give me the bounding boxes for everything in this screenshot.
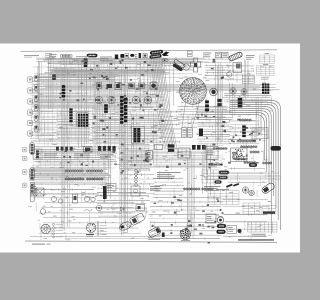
legend text cluster top left	[45, 53, 89, 65]
dark block right of detail boxes	[199, 129, 203, 137]
wire bus J (lower left)	[30, 146, 117, 170]
wire bus X	[118, 174, 154, 195]
bulb ladder right of speedometer	[97, 222, 107, 236]
background harness runs (upper mass)	[30, 61, 223, 167]
vertical riser group j	[141, 61, 151, 109]
resistor bar (dark vertical)	[103, 186, 107, 199]
vertical riser group g	[215, 63, 222, 146]
left connector pill P1	[30, 143, 35, 155]
harness sweep curves (top right corner)	[230, 101, 281, 235]
fine harness weave (mid band block)	[32, 147, 118, 169]
socket chain row SC1b (dark)	[65, 178, 84, 180]
wire bus Z (right mid)	[223, 92, 272, 103]
left margin callout boxes (page references)	[28, 77, 33, 136]
terminal column TC7	[242, 126, 245, 138]
legend table C with dark row	[262, 206, 276, 215]
vertical riser group r	[230, 83, 235, 118]
wire bus C	[33, 74, 121, 83]
annotation: instrument note	[204, 186, 220, 191]
grommet pill (dark)	[249, 163, 257, 166]
short wire drops scattered in field	[34, 57, 271, 240]
vertical riser group n	[48, 58, 53, 109]
connector chain row y164 c	[262, 162, 271, 164]
component row LR3 (dark cluster)	[98, 146, 116, 151]
socket chain row SC1 (light)	[65, 170, 83, 172]
terminal strip under C1	[61, 59, 75, 65]
wire bundle under circle	[176, 105, 229, 124]
connector C5 (angled black oval pair)	[149, 50, 163, 59]
callout box 2	[222, 52, 228, 58]
connector stack right of circle	[218, 99, 222, 106]
knob circle	[217, 217, 223, 223]
small inline connectors / splice ticks	[59, 59, 261, 244]
headlamp connector pair (spoked)	[230, 88, 247, 95]
dark stack below pin grid	[238, 98, 242, 107]
component row LR5	[192, 145, 206, 150]
buzzer B1 (circle)	[183, 64, 189, 70]
terminal chain TC5	[62, 86, 65, 98]
rear lamp pill L2	[217, 230, 226, 234]
connector C2 (black oval)	[87, 54, 98, 57]
bottom right grid table	[248, 222, 278, 232]
wire bus A (top run)	[36, 57, 208, 65]
vertical riser group m	[202, 153, 210, 196]
wire ladder H (right of circle)	[196, 106, 233, 145]
comp cluster right of pill P1	[33, 149, 42, 159]
wire bus L	[150, 152, 219, 168]
wire bus V (left sparse)	[30, 110, 56, 142]
lower margin ref boxes	[22, 148, 27, 188]
module M2	[139, 83, 145, 89]
headlamp circles pair	[242, 187, 254, 196]
fusible link bar	[139, 53, 142, 58]
wire bus P	[222, 199, 269, 238]
wire bus E	[31, 93, 163, 109]
connector C4 marks	[135, 54, 137, 59]
legend table 1	[260, 53, 275, 63]
wire bus B (main harness run)	[45, 67, 170, 77]
harness arrow symbol	[162, 52, 169, 57]
socket chain row SC2b (dark)	[86, 178, 103, 180]
dash panel nested frame lines	[204, 144, 281, 179]
wire bus N	[30, 170, 111, 186]
terminal blocks above flasher	[188, 51, 193, 57]
callout box 1	[216, 52, 222, 58]
terminal chain column TC2c	[70, 109, 73, 123]
dark blob row mid	[104, 105, 107, 113]
wire bus Q	[153, 178, 184, 196]
sender unit circles	[40, 196, 63, 214]
annotation: right signal harness note	[150, 186, 162, 191]
fuse block F1	[115, 55, 118, 60]
horn H1	[150, 83, 157, 90]
fine harness weave (upper center block)	[89, 59, 166, 104]
relay K3 (rotated pill pair)	[171, 59, 185, 72]
grommet pills column	[215, 171, 230, 184]
fuse panel pin grid (black)	[262, 84, 269, 94]
note text column	[203, 53, 211, 58]
trailer connector (round, many pins)	[180, 229, 190, 241]
wire bundle I	[158, 111, 181, 143]
connector C3 (small black oval)	[130, 54, 134, 57]
vertical riser group l	[105, 112, 111, 199]
trailer junction box	[227, 226, 236, 234]
dark blob row LR6	[271, 146, 282, 151]
fine harness weave (mid lower block)	[119, 146, 152, 169]
scan page (white field)	[0, 44, 300, 253]
left fuse strip	[34, 75, 38, 132]
wire bus N2	[29, 168, 109, 178]
bulb legend ladder (right of ammeter)	[53, 224, 64, 238]
bulb chart table B	[243, 203, 260, 214]
vertical riser group p	[132, 112, 137, 165]
fine harness weave (lower band block)	[32, 170, 112, 184]
connector chain row CH4	[235, 158, 247, 160]
terminal chain TC6	[205, 101, 209, 112]
heater switch cluster with stipple	[231, 148, 248, 162]
relay mini box row	[136, 205, 145, 211]
terminal chain column TC2	[124, 98, 127, 122]
socket chain row SC3	[183, 188, 200, 190]
rear lamp pill L1	[217, 224, 226, 228]
wire bus O (sparse)	[38, 202, 141, 235]
vertical riser group d	[120, 64, 127, 236]
relay K4	[115, 83, 121, 90]
vertical riser group b (long)	[61, 60, 69, 231]
wiring color code table	[242, 76, 254, 84]
flasher unit (cross shaped component)	[190, 58, 200, 72]
junction box J1	[143, 54, 147, 58]
component row LR4	[168, 145, 174, 152]
vertical riser group e	[170, 63, 174, 107]
voltage regulator box	[233, 63, 242, 73]
relay K2 (outline box)	[125, 54, 129, 58]
sheet caption bottom left (footer below rule)	[32, 244, 51, 245]
ignition switch (slanted striped pill)	[228, 51, 243, 61]
vertical riser group s	[256, 97, 261, 139]
arrows pair	[226, 183, 239, 188]
pigtail squiggle	[84, 209, 92, 211]
connector chain row CH2	[237, 140, 256, 142]
horn relay circle	[227, 72, 232, 77]
wire bus Y (top right)	[226, 65, 255, 81]
fine harness weave (upper left block)	[31, 59, 122, 106]
wire bus D (full width run)	[30, 83, 279, 92]
sheet title text	[24, 55, 39, 57]
legend text block	[49, 54, 57, 59]
wire bus N3	[33, 188, 99, 199]
bottom border rule of schematic sheet	[25, 241, 277, 242]
note text top right	[246, 55, 255, 60]
annotation: left text block	[30, 186, 38, 196]
vertical riser group i	[244, 59, 248, 100]
sheet caption bottom right	[238, 239, 274, 240]
resistor block R1	[107, 84, 113, 88]
starter motor (angled outline drawing)	[148, 226, 162, 238]
air cleaner (angled oval component)	[118, 220, 132, 232]
speedometer label rows	[86, 234, 94, 237]
component row LR2	[84, 147, 93, 153]
speedometer dial (spoked)	[87, 223, 96, 232]
wire ladder U (top right)	[204, 58, 231, 80]
module M1	[129, 83, 135, 89]
wire bundle G	[57, 110, 91, 143]
oil pressure switch	[73, 194, 78, 203]
relay box right-mid	[252, 128, 268, 139]
terminal chain TC3	[84, 59, 87, 67]
label text right of C2	[100, 57, 113, 62]
junction box JB2	[155, 145, 163, 150]
ammeter dial (spoked)	[41, 224, 50, 233]
heater control pin grid (black block)	[77, 113, 88, 127]
wire color code table (center)	[202, 170, 219, 183]
connector chain row CH5	[213, 147, 227, 149]
wire bundle F (center dense)	[92, 109, 168, 145]
callout leader lines from bulkhead connector	[182, 102, 199, 128]
rubber grommet (dark)	[238, 229, 242, 233]
terminal chain column TC1	[120, 96, 123, 124]
left connector pill P2	[30, 168, 35, 180]
bulkhead connector (large circle with pin field)	[180, 77, 207, 104]
wire bus M (bottom center)	[149, 197, 223, 240]
vertical riser group o	[109, 60, 115, 110]
vertical riser group f (bottom neck)	[187, 151, 194, 238]
lamp usage chart	[208, 189, 239, 205]
ignition module box	[106, 184, 116, 191]
dimmer box	[131, 186, 140, 196]
left terminal box P3	[30, 183, 34, 194]
connector C1 (oval with pins)	[60, 54, 72, 57]
sender circles 2	[84, 196, 95, 201]
ignition coil T1	[97, 83, 102, 89]
printed circuit box	[206, 147, 218, 160]
legend table 2	[257, 64, 275, 79]
vertical riser group a	[37, 60, 41, 138]
wire bus R	[228, 120, 259, 145]
connector chain row CH1	[239, 119, 251, 121]
coil assembly (angled box)	[129, 213, 145, 226]
boot grommet under arrow	[162, 59, 168, 63]
main harness bundle (diagonal band from connectors to detail)	[152, 58, 177, 149]
terminal chain column TC2b	[132, 127, 145, 144]
wire bus S (right mid)	[227, 167, 266, 183]
tiny wire labels (illegible scan text)	[28, 57, 274, 240]
wire bus W (under top comps)	[147, 61, 194, 79]
socket chain row SC2 (light)	[86, 170, 102, 172]
left connector pill P4	[30, 194, 34, 202]
diode symbol	[121, 207, 125, 211]
annotation: load center harness note	[157, 172, 181, 179]
component row LR1	[56, 147, 73, 151]
connector chain row y164 b	[244, 161, 256, 163]
label text rows under component row	[44, 154, 114, 159]
connector chain row CH6 (dark pills top right)	[240, 146, 257, 148]
instrument module box	[178, 148, 190, 158]
round connector row (bulkhead sockets)	[95, 96, 152, 104]
terminal chain TC4	[52, 75, 55, 80]
vertical riser group q	[154, 113, 157, 168]
long return wire above border	[30, 236, 196, 238]
wiper motor (rotated cylinder)	[261, 182, 275, 195]
connector chain row CH3	[250, 151, 259, 153]
relay box with X brace	[36, 188, 44, 196]
vertical riser group k	[79, 60, 86, 148]
junction box JB1	[146, 151, 153, 160]
connector detail boxes (striped pair)	[182, 128, 193, 138]
light table lower left of C1	[56, 69, 74, 76]
fuel sender circle	[96, 205, 102, 211]
top border rule of schematic sheet	[21, 50, 278, 52]
wire bus T	[96, 187, 150, 217]
socket chain row SC4	[201, 188, 213, 190]
small box with pointer	[206, 214, 216, 223]
fuse symbols column (diamond chain)	[134, 169, 138, 187]
fine harness weave (left-center block)	[30, 103, 127, 147]
connector chain row y164 a	[208, 163, 222, 165]
vertical riser group c	[94, 62, 100, 160]
wire bundle K (dense block)	[119, 144, 152, 172]
relay K1 (black square)	[120, 54, 124, 58]
table caption	[252, 234, 266, 237]
idle solenoid (dark circle)	[210, 88, 218, 96]
